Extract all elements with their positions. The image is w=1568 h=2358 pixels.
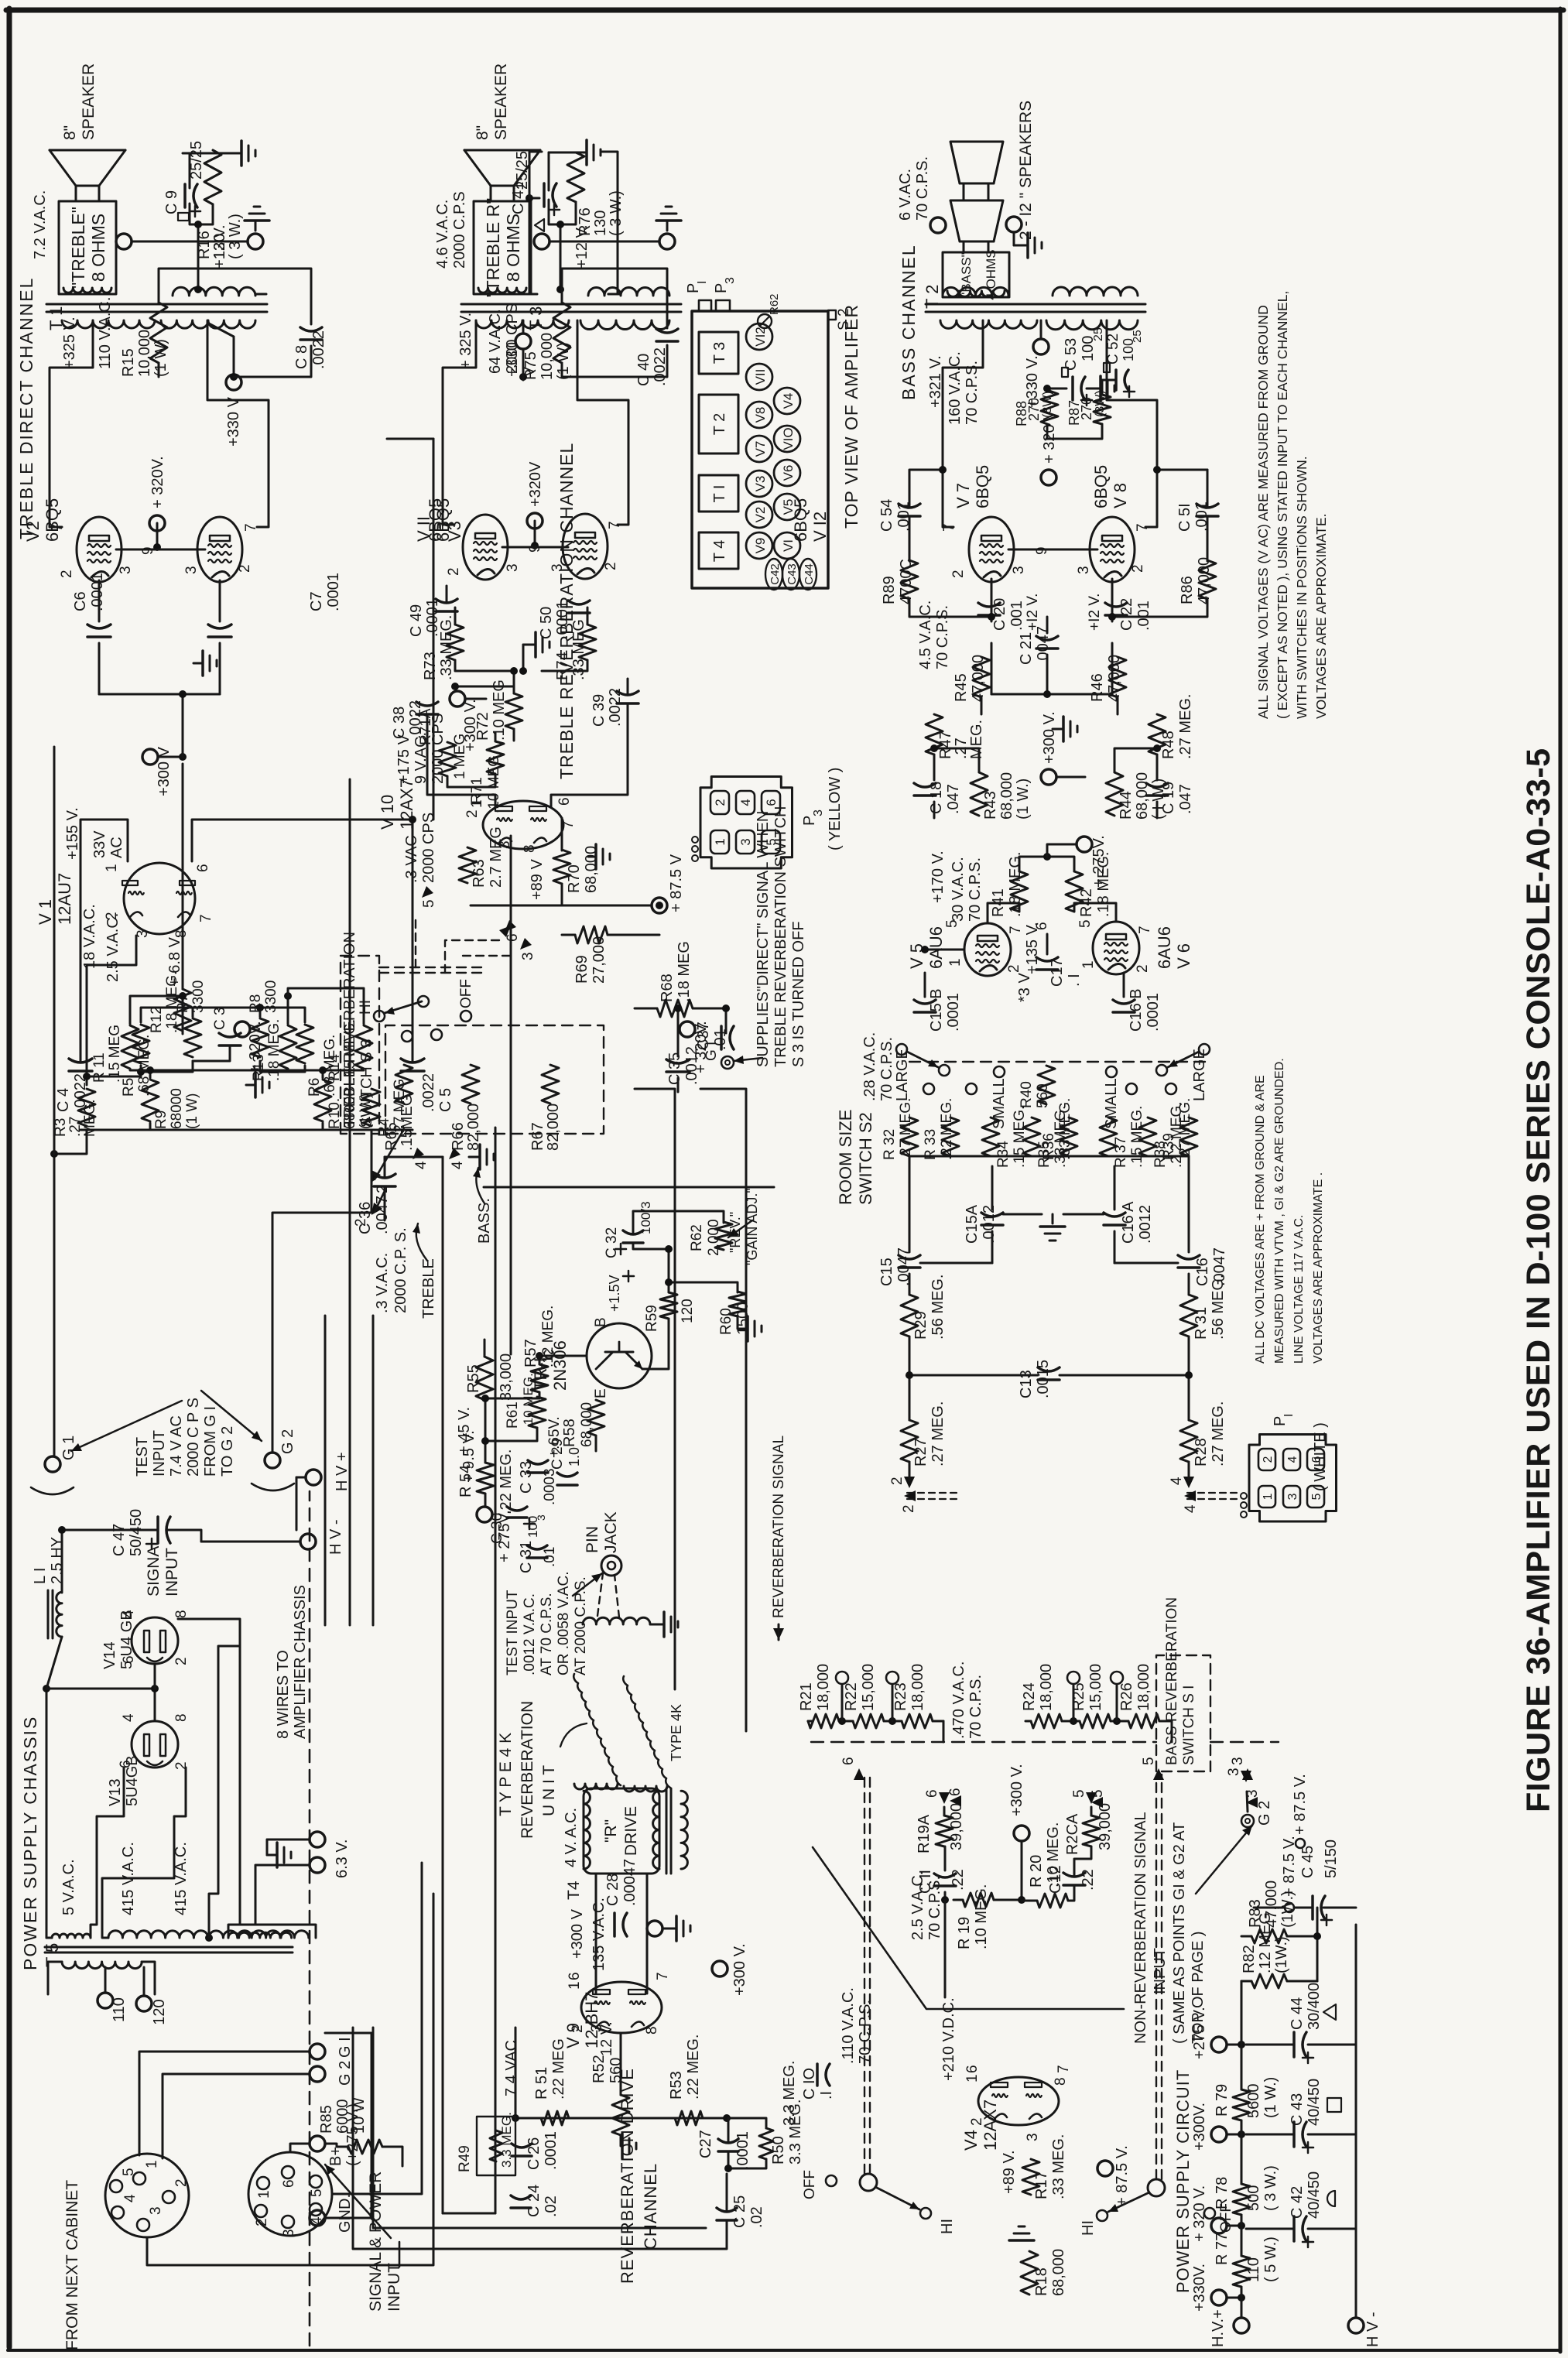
svg-text:V4: V4 [961, 2130, 981, 2151]
svg-text:BASS.: BASS. [476, 1198, 493, 1244]
svg-text:C 38: C 38 [391, 707, 408, 739]
svg-text:AC: AC [108, 837, 125, 858]
svg-text:4: 4 [1183, 1504, 1199, 1513]
svg-text:TO G 2: TO G 2 [219, 1426, 236, 1477]
svg-text:TYPE 4K: TYPE 4K [669, 1704, 684, 1761]
svg-text:R85: R85 [318, 2105, 335, 2134]
+320V ladder terminal row2 [680, 1022, 695, 1037]
power pentode V11 6BQ5 [463, 515, 508, 580]
svg-text:NON-REVERBERATION SIGNAL: NON-REVERBERATION SIGNAL [1132, 1812, 1149, 2044]
svg-text:C 25: C 25 [731, 2195, 748, 2228]
S3 dashed gang lines [379, 972, 488, 974]
svg-text:+I2 V.: +I2 V. [1025, 594, 1041, 631]
svg-text:( 5 W.): ( 5 W.) [1262, 2237, 1279, 2282]
svg-text:1 MEG: 1 MEG [452, 734, 468, 779]
capacitor C13 .0015 [1038, 1378, 1060, 1381]
wire R82 R83 tops [1287, 1980, 1317, 1983]
resistor R53 .22MEG [675, 2111, 703, 2125]
svg-text:3: 3 [812, 809, 825, 816]
svg-text:U N I T: U N I T [540, 1765, 558, 1816]
ground right of R76 [549, 152, 585, 154]
svg-text:R18: R18 [1033, 2267, 1050, 2296]
svg-text:R82: R82 [1241, 1945, 1258, 1973]
svg-text:H V +: H V + [334, 1452, 351, 1491]
chevron pin3 [520, 938, 532, 950]
resistor R10 68000 1W [314, 1080, 331, 1121]
resistor R16 130 3W [204, 150, 221, 204]
resistor R32 .27MEG [901, 1117, 918, 1156]
resistor R3 .27MEG [78, 1089, 95, 1126]
svg-text:C 53: C 53 [1063, 338, 1080, 371]
svg-text:6: 6 [567, 1972, 583, 1980]
chevron 4 at R28 [1183, 1477, 1194, 1488]
svg-text:8 OHMS: 8 OHMS [88, 214, 108, 282]
wire R43 R44 +300 [934, 748, 979, 772]
twin triode V4 12AX7 [978, 2077, 1059, 2125]
svg-text:*3 V: *3 V [1016, 973, 1033, 1002]
svg-text:120: 120 [151, 1999, 168, 2024]
svg-text:HI: HI [358, 1000, 374, 1015]
S2 ladder tops [0, 2357, 2, 2358]
svg-text:3: 3 [549, 563, 566, 572]
svg-text:4.6 V.A.C.: 4.6 V.A.C. [434, 200, 451, 269]
svg-text:LARGE: LARGE [894, 1049, 911, 1101]
wire V2 plate to T1 primary top [50, 320, 93, 527]
svg-text:47,000: 47,000 [1196, 557, 1213, 604]
svg-text:T Y P E 4 K: T Y P E 4 K [497, 1733, 515, 1816]
svg-text:+ 320V.: + 320V. [247, 1021, 264, 1073]
resistor R20A 39000 [1083, 1816, 1100, 1846]
S1 contacts right group [1067, 1672, 1080, 1684]
svg-text:100/3: 100/3 [638, 1201, 653, 1234]
svg-text:LARGE: LARGE [1191, 1049, 1208, 1101]
svg-text:68,000: 68,000 [579, 1402, 595, 1447]
resistor R25 15000 [1080, 1714, 1111, 1728]
capacitor C19 .047 [1146, 794, 1168, 797]
+300V terminal row1 [142, 749, 158, 765]
svg-text:R27: R27 [912, 1438, 930, 1466]
chevron 5 at R20A [1086, 1792, 1097, 1804]
resistor R8 3300 [252, 1018, 269, 1057]
svg-text:8: 8 [173, 1713, 190, 1722]
capacitor C10 .1 [816, 2064, 819, 2086]
T4 R DRIVE transformer [584, 1788, 659, 1874]
svg-text:1: 1 [1262, 1494, 1275, 1501]
svg-text:5600: 5600 [1245, 2084, 1262, 2119]
svg-text:DRIVE: DRIVE [622, 1806, 640, 1856]
svg-text:2: 2 [464, 809, 481, 818]
long vertical room-size boundary [484, 1186, 774, 1189]
svg-text:1: 1 [256, 2190, 272, 2199]
svg-text:5: 5 [309, 2189, 325, 2197]
svg-text:9: 9 [140, 546, 156, 555]
svg-text:R68: R68 [659, 974, 676, 1002]
svg-text:R 37: R 37 [1113, 1137, 1129, 1168]
svg-text:70 C.P.S.: 70 C.P.S. [967, 857, 984, 922]
svg-text:R 32: R 32 [882, 1129, 898, 1160]
svg-text:"TREBLE R": "TREBLE R" [483, 198, 503, 298]
svg-text:R 78: R 78 [1214, 2177, 1231, 2209]
svg-text:3.3 MEG.: 3.3 MEG. [499, 2112, 514, 2168]
svg-text:E: E [593, 1388, 609, 1398]
capacitor C44 30/400 [1292, 2032, 1296, 2057]
ground R52 [620, 2135, 622, 2146]
svg-text:.27: .27 [67, 1117, 84, 1137]
svg-text:T I: T I [711, 485, 728, 503]
capacitor C30 100/3 [507, 1516, 527, 1519]
resistor R11 .15MEG [122, 1025, 139, 1069]
capacitor C31 .01 [527, 1556, 547, 1559]
svg-text:C16: C16 [1194, 1258, 1211, 1286]
svg-text:( EXCEPT AS NOTED ), USING STA: ( EXCEPT AS NOTED ), USING STATED INPUT … [1275, 291, 1290, 719]
TR1 wires [485, 1392, 539, 1463]
svg-text:+300 V: +300 V [569, 1908, 586, 1959]
svg-text:+300 V.: +300 V. [1041, 711, 1058, 764]
pickup coil to pin jack [583, 1617, 650, 1624]
svg-text:R40: R40 [1019, 1081, 1035, 1108]
svg-text:.0047: .0047 [374, 1196, 391, 1234]
svg-text:GND.: GND. [337, 2194, 354, 2233]
svg-text:30/400: 30/400 [1306, 1983, 1323, 2030]
svg-text:4: 4 [738, 799, 753, 806]
svg-text:64 V.A.C.: 64 V.A.C. [487, 309, 504, 374]
output transformer T3 [461, 311, 681, 313]
svg-text:3: 3 [148, 2206, 164, 2215]
speaker terminals + ground [116, 234, 132, 249]
svg-text:SWITCH S I: SWITCH S I [1181, 1686, 1197, 1765]
svg-text:.68 MEG.: .68 MEG. [136, 1035, 152, 1097]
svg-text:18,000: 18,000 [1135, 1664, 1152, 1711]
capacitor C18 .047 [914, 794, 936, 797]
resistor R86 47000 [1199, 560, 1216, 599]
chevron 4 pair near P1 [1184, 1490, 1196, 1501]
svg-text:3: 3 [505, 563, 521, 572]
svg-text:.27 MEG.: .27 MEG. [930, 1401, 947, 1466]
svg-text:.33 MEG.: .33 MEG. [1057, 1098, 1073, 1160]
resistor R7 3300 [184, 1018, 201, 1057]
svg-text:1: 1 [144, 2160, 160, 2168]
ground mid bass [1053, 728, 1062, 731]
svg-text:25: 25 [1092, 327, 1105, 341]
svg-text:3: 3 [724, 277, 737, 284]
svg-text:R34: R34 [995, 1141, 1012, 1168]
svg-text:.15MEG: .15MEG [399, 1094, 416, 1151]
svg-text:.27 MEG.: .27 MEG. [1177, 1098, 1193, 1160]
reverberation signal bus upper [635, 1089, 675, 1689]
svg-text:V 10: V 10 [378, 795, 397, 830]
svg-text:70 C.P.S.: 70 C.P.S. [934, 605, 951, 669]
ground pin jack [611, 1528, 612, 1538]
wire C15B C16B to grids [924, 973, 926, 997]
svg-text:5: 5 [1310, 1493, 1323, 1500]
capacitor C43 40/450 [1292, 2122, 1296, 2147]
S1 OFF contact left [826, 2175, 837, 2186]
svg-text:6 V.AC.: 6 V.AC. [897, 169, 914, 221]
svg-text:+ 6.8 V.: + 6.8 V. [166, 934, 183, 987]
ground C53 [1087, 388, 1099, 390]
resistor R61 .10MEG [529, 1397, 546, 1428]
svg-text:SIGNAL: SIGNAL [145, 1537, 163, 1597]
svg-text:INPUT: INPUT [385, 2263, 403, 2312]
resistor R38 .22MEG [1139, 1117, 1156, 1156]
svg-text:3: 3 [183, 566, 200, 574]
svg-text:.10 MEG.: .10 MEG. [521, 1373, 536, 1429]
svg-text:.0012: .0012 [1137, 1205, 1154, 1244]
svg-text:40/450: 40/450 [1306, 2171, 1323, 2219]
svg-text:+1.5V: +1.5V [607, 1275, 622, 1312]
resistor R72 .10MEG [505, 693, 522, 729]
chevron 6 pair [854, 1768, 864, 1780]
svg-text:2,000: 2,000 [706, 1219, 722, 1256]
8 wires dashed boundary [309, 1491, 311, 2346]
wire ladder columns [80, 1129, 82, 1131]
svg-text:4: 4 [1169, 1477, 1185, 1485]
svg-text:V 8: V 8 [1111, 483, 1130, 508]
svg-text:R86: R86 [1179, 576, 1196, 604]
svg-text:+12 V.: +12 V. [573, 224, 591, 269]
ground near R12 [193, 662, 203, 665]
svg-text:SPEAKER: SPEAKER [492, 63, 510, 140]
svg-text:4: 4 [121, 1610, 137, 1618]
svg-text:.01: .01 [542, 1547, 558, 1567]
resistor R48 .27MEG [1149, 714, 1166, 755]
svg-text:( 3 W.): ( 3 W.) [608, 190, 625, 236]
svg-text:3: 3 [520, 952, 536, 960]
svg-text:R50: R50 [770, 2136, 787, 2165]
capacitor C37 .01 [720, 1026, 723, 1049]
svg-text:6000: 6000 [334, 2100, 351, 2134]
svg-text:REVERBERATION: REVERBERATION [519, 1701, 536, 1839]
capacitor C28 .00047 [613, 1913, 616, 1936]
svg-text:7: 7 [1137, 926, 1153, 934]
svg-text:SIGNAL & POWER: SIGNAL & POWER [367, 2171, 385, 2312]
wire R88 C53 nodes [1046, 425, 1049, 439]
capacitor C24 .02 [511, 2206, 531, 2209]
resistor R74 .33MEG [579, 625, 596, 660]
svg-text:C 5: C 5 [437, 1088, 454, 1112]
svg-text:4: 4 [121, 1713, 137, 1722]
svg-text:C 50: C 50 [538, 607, 555, 639]
svg-text:270: 270 [1079, 397, 1094, 420]
resistor R12 .18MEG [174, 989, 191, 1031]
svg-text:C44: C44 [803, 563, 816, 585]
svg-text:68000: 68000 [169, 1088, 185, 1129]
G2 injection point [1241, 1815, 1254, 1827]
svg-text:+325 V.: +325 V. [61, 317, 78, 369]
P3 edge pins [692, 855, 698, 861]
chevron 2 at R27 [904, 1477, 915, 1488]
svg-text:G 2: G 2 [1256, 1801, 1273, 1826]
svg-text:(1 W.): (1 W.) [1015, 779, 1032, 820]
svg-text:2000 C.P. S.: 2000 C.P. S. [392, 1227, 409, 1313]
resistor R27 .27MEG [901, 1420, 918, 1462]
bass speaker terminals [930, 217, 946, 233]
svg-text:R46: R46 [1089, 673, 1106, 702]
svg-text:1.0: 1.0 [567, 1447, 582, 1466]
svg-text:H.V.+: H.V.+ [1210, 2309, 1227, 2347]
S3 spare contacts [402, 1031, 413, 1042]
svg-text:2: 2 [901, 1504, 917, 1513]
wire V3 plate to T1 primary bottom [207, 320, 269, 527]
capacitor C3 [219, 1044, 241, 1047]
svg-text:3.3 MEG.: 3.3 MEG. [781, 2061, 798, 2126]
svg-text:R47: R47 [937, 731, 954, 759]
reverberation spring coil upper [573, 1674, 621, 1785]
svg-text:V 7: V 7 [953, 483, 973, 508]
svg-text:R66: R66 [450, 1122, 467, 1151]
R50 loop wires [727, 2118, 766, 2128]
HV- rail [1355, 1925, 1357, 2318]
S1 contacts left group [836, 1672, 848, 1684]
T5 heater winding 6.3V [228, 1932, 292, 1938]
pin jack symbol [601, 1555, 621, 1576]
svg-text:6BQ5: 6BQ5 [43, 498, 62, 542]
svg-text:CHANNEL: CHANNEL [641, 2163, 660, 2250]
wire HV+ rail [1241, 2287, 1243, 2318]
label REVERBERATION SIGNAL [773, 1628, 784, 1640]
+330V tap terminal T3 primary [515, 334, 531, 349]
svg-text:110: 110 [111, 1997, 128, 2022]
svg-text:R23: R23 [892, 1682, 909, 1711]
svg-text:2: 2 [1135, 964, 1151, 973]
svg-text:.0001: .0001 [734, 2131, 751, 2170]
chevron pin4 grounds [413, 1148, 424, 1159]
+330V terminal row1 [226, 375, 241, 390]
wire C49 C50 to V11 V12 [446, 586, 448, 602]
wire 5V to rectifier filaments [46, 1937, 52, 1939]
svg-text:TREBLE: TREBLE [420, 1258, 437, 1319]
svg-text:7.2 V.A.C.: 7.2 V.A.C. [32, 190, 49, 259]
svg-text:R19A: R19A [916, 1814, 933, 1853]
S2 gang dashed link [909, 1061, 1209, 1063]
svg-text:130: 130 [592, 210, 609, 236]
svg-text:.27 MEG.: .27 MEG. [1210, 1401, 1227, 1466]
svg-text:.470 V.A.C.: .470 V.A.C. [950, 1662, 967, 1739]
svg-text:R26: R26 [1118, 1682, 1135, 1711]
output transformer T1 [46, 311, 267, 313]
svg-text:TOP VIEW OF AMPLIFER: TOP VIEW OF AMPLIFER [841, 304, 861, 529]
svg-text:6.3 V.: 6.3 V. [334, 1840, 351, 1878]
svg-text:G 2: G 2 [279, 1429, 296, 1454]
svg-text:R45: R45 [953, 673, 970, 702]
svg-text:AMPLIFIER CHASSIS: AMPLIFIER CHASSIS [292, 1585, 309, 1739]
resistor R55 33000 [476, 1357, 493, 1400]
ground between C15A C16A [1052, 1214, 1054, 1223]
+87.5V node [1285, 1903, 1294, 1912]
S1 wiper right [1148, 2179, 1165, 2196]
svg-text:( SAME AS POINTS GI & G2 AT: ( SAME AS POINTS GI & G2 AT [1171, 1822, 1188, 2044]
resistor R73 .33MEG [447, 625, 464, 660]
resistor R52 560 [612, 2095, 629, 2135]
reverberation spring coil lower [623, 1676, 670, 1788]
grid bus V2-V3 [116, 549, 205, 551]
capacitor C45 5/150 [1311, 1896, 1314, 1919]
svg-text:+ 320V.: + 320V. [149, 456, 166, 508]
svg-text:R53: R53 [668, 2071, 685, 2100]
svg-text:160 V.A.C.: 160 V.A.C. [947, 351, 964, 425]
input terminal G1 [45, 1456, 60, 1472]
svg-text:+ 87.5 V.: + 87.5 V. [1292, 1774, 1309, 1835]
svg-text:R 11: R 11 [91, 1052, 108, 1083]
wire C6 C7 column x2150 [99, 693, 220, 696]
svg-text:C 22: C 22 [1118, 598, 1135, 631]
svg-text:R 79: R 79 [1214, 2084, 1231, 2117]
capacitor C29 1.0 [557, 1484, 577, 1487]
S2 SMALL contacts [994, 1066, 1005, 1077]
svg-text:H V -: H V - [327, 1519, 344, 1555]
wire V5 V6 plates to R41 R42 [988, 903, 1019, 923]
wire R12 to C6 column [0, 2357, 2, 2358]
svg-text:6: 6 [840, 1757, 857, 1765]
svg-text:+330V.: +330V. [1191, 2264, 1208, 2312]
svg-text:C 28: C 28 [604, 1874, 621, 1906]
wire C21 node [1046, 617, 1049, 633]
connector P3 yellow [700, 777, 792, 869]
svg-text:R49: R49 [457, 2145, 473, 2172]
terminal 110 [98, 1993, 113, 2008]
svg-text:18,000: 18,000 [815, 1664, 832, 1711]
svg-text:V9: V9 [753, 538, 768, 554]
svg-text:R17: R17 [1033, 2171, 1050, 2199]
svg-text:VOLTAGES ARE APPROXIMATE.: VOLTAGES ARE APPROXIMATE. [1313, 514, 1329, 720]
svg-text:70 C.P.S.: 70 C.P.S. [914, 156, 931, 221]
svg-text:+ 320 V.: + 320 V. [1191, 2185, 1208, 2242]
svg-text:+300 V.: +300 V. [1008, 1764, 1025, 1816]
svg-text:C 43: C 43 [1289, 2093, 1306, 2126]
svg-text:R63: R63 [471, 859, 488, 888]
terminal G1 ps [310, 2044, 325, 2059]
svg-text:3: 3 [1076, 566, 1092, 574]
wire R47 R48 to C18 C19 [933, 755, 936, 780]
svg-text:. I: . I [1066, 974, 1083, 987]
room size wires [909, 1462, 911, 1480]
capacitor C9 25/25 [183, 184, 187, 207]
svg-text:TEST: TEST [134, 1437, 151, 1477]
svg-text:27,000: 27,000 [591, 936, 608, 984]
svg-text:18,000: 18,000 [909, 1664, 926, 1711]
svg-text:C 30: C 30 [489, 1513, 505, 1544]
resistor R65 .15MEG [395, 1065, 413, 1104]
svg-text:+12 V.: +12 V. [211, 224, 228, 269]
power pentode V3 6BQ5 [197, 517, 242, 582]
speaker TREBLE R 8 ohms [474, 201, 531, 294]
svg-text:R89: R89 [881, 576, 898, 604]
R62 screw [758, 314, 772, 328]
wire R88 C53 to +330 node [1046, 424, 1102, 439]
resistor R85 6000 10W [348, 2140, 382, 2154]
svg-text:C 49: C 49 [408, 604, 425, 637]
svg-text:B+: B+ [327, 2147, 344, 2166]
reverberation signal bus lower [700, 1089, 746, 1731]
svg-text:V5: V5 [781, 499, 796, 515]
svg-text:82,000: 82,000 [545, 1104, 562, 1151]
svg-text:.0022: .0022 [310, 330, 327, 369]
svg-text:39,000: 39,000 [1097, 1803, 1114, 1850]
svg-text:G I: G I [337, 2037, 354, 2058]
svg-text:R5: R5 [121, 1078, 137, 1097]
svg-text:560: 560 [1035, 1083, 1051, 1108]
svg-text:47,000: 47,000 [970, 655, 987, 702]
svg-text:R83: R83 [1247, 1899, 1264, 1928]
svg-text:R59: R59 [644, 1305, 660, 1332]
svg-text:15,000: 15,000 [860, 1664, 877, 1711]
+300V terminal row2 [450, 691, 465, 707]
chevron pin2 near C36 [371, 1203, 382, 1215]
svg-text:.56 MEG.: .56 MEG. [1210, 1275, 1227, 1340]
capacitor C35 .0012 [666, 1070, 690, 1073]
ground branch row1 [229, 1084, 231, 1087]
resistor R24 18000 [1031, 1714, 1062, 1728]
